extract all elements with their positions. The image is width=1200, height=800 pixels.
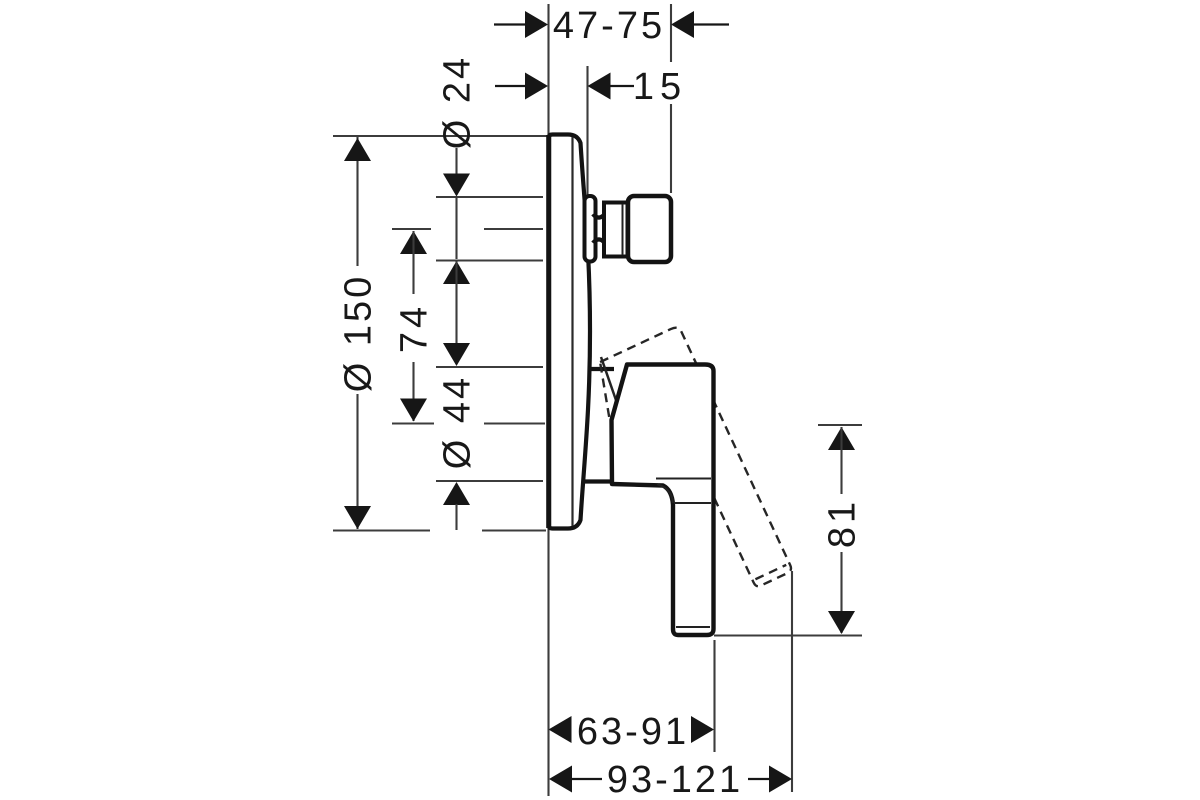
- dim O44 up arrow: [443, 482, 470, 505]
- extension line x=792 (93-121 right): [791, 571, 793, 792]
- dim 74 up arrow: [400, 231, 427, 254]
- dim 81 line lower: [840, 552, 842, 633]
- dim O44 down arrow: [443, 343, 470, 366]
- extension line y=367 (sleeve top, O44): [436, 366, 543, 368]
- dim 93-121 left tail: [572, 778, 602, 780]
- svg-text:Ø 44: Ø 44: [437, 375, 479, 469]
- extension line x=671 (below 15 text, down to knob): [670, 104, 672, 193]
- extension line y=481 (sleeve bottom, O44): [436, 480, 543, 482]
- extension line x=548 (plate front face, full height): [547, 4, 549, 796]
- extension line y=530.5 right segment: [482, 529, 546, 531]
- dim O24 down arrow: [443, 174, 470, 197]
- dim O44 line above: [455, 292, 457, 344]
- dim O150 line upper: [356, 137, 358, 266]
- dim 63-91 left arrow: [549, 716, 572, 743]
- svg-text:47-75: 47-75: [553, 5, 665, 47]
- extension line y=229 (knob centerline, left segment): [392, 228, 431, 230]
- svg-text:Ø 150: Ø 150: [338, 274, 380, 393]
- handle sleeve top edge: [588, 367, 615, 371]
- knob neck lower edge: [593, 239, 607, 245]
- dim 47-75 line left tail: [494, 23, 526, 25]
- dim O24 up arrow: [443, 261, 470, 284]
- extension line x=671 (knob end, upper part): [670, 4, 672, 62]
- dim O44 tail below: [455, 504, 457, 530]
- svg-text:93-121: 93-121: [607, 759, 743, 800]
- extension line y=635.5 (grip bottom, 81 bottom): [714, 634, 862, 636]
- dim O150 line lower: [356, 394, 358, 529]
- dim O24 line middle: [455, 198, 457, 259]
- svg-text:15: 15: [633, 66, 687, 108]
- extension line y=229 (knob centerline, right segment): [484, 228, 543, 230]
- dim 81 line upper: [840, 427, 842, 494]
- handle fillet second curve: [657, 484, 673, 503]
- knob cap: [628, 196, 671, 262]
- dim 15 right arrow: [588, 73, 611, 100]
- knob cylinder inner line: [622, 204, 624, 255]
- extension line x=716 (63-91 right): [713, 640, 715, 752]
- dim 93-121 right tail: [748, 778, 769, 780]
- svg-text:74: 74: [394, 303, 436, 353]
- escutcheon plate outline: [549, 135, 590, 529]
- knob neck upper edge: [593, 212, 607, 218]
- svg-text:Ø 24: Ø 24: [437, 55, 479, 149]
- plate face inner line: [571, 137, 573, 526]
- dim 47-75 right tail: [694, 23, 729, 25]
- handle sleeve bottom edge: [585, 479, 612, 483]
- dim 47-75 left arrow: [525, 11, 548, 38]
- plate front face edge (left, thicker): [546, 135, 551, 528]
- extension line y=197 (knob top): [436, 196, 543, 198]
- extension line x=587 (knob base): [586, 66, 588, 195]
- dim 74 down arrow: [400, 399, 427, 422]
- extension line y=423.5 (handle pivot centerline, right segment): [484, 422, 545, 424]
- extension line y=423.5 (handle pivot centerline, left segment): [392, 422, 434, 424]
- handle step lower line: [674, 502, 711, 504]
- dim O150 up arrow: [344, 138, 371, 161]
- svg-text:81: 81: [822, 498, 864, 548]
- dim O24 tail below: [455, 261, 457, 292]
- dim 81 up arrow: [828, 427, 855, 450]
- dashed handle (swung position): [586, 325, 793, 613]
- dim 74 line upper: [412, 231, 414, 294]
- dim 15 right tail: [610, 85, 634, 87]
- dim 93-121 left arrow: [549, 766, 572, 793]
- dim 81 down arrow: [828, 611, 855, 634]
- handle neck slant edge: [601, 357, 617, 403]
- dim 15 left tail: [495, 85, 526, 87]
- dim 47-75 right arrow: [671, 11, 694, 38]
- extension line y=136 (O150 top): [333, 135, 548, 137]
- dim O150 down arrow: [344, 506, 371, 529]
- dim 74 line lower: [412, 362, 414, 421]
- dim 93-121 right arrow: [769, 766, 792, 793]
- svg-text:63-91: 63-91: [577, 711, 689, 753]
- dim O24 line above: [455, 148, 457, 195]
- handle step upper line: [656, 478, 711, 480]
- extension line y=425 (81 top): [818, 424, 862, 426]
- handle grip end inner line: [676, 626, 710, 628]
- dim 63-91 right arrow: [691, 716, 714, 743]
- knob flange: [585, 196, 596, 262]
- solid handle outline: [612, 365, 714, 636]
- extension line y=530.5 (O150 bottom): [333, 529, 430, 531]
- extension line y=260.5 (knob bottom): [436, 259, 543, 261]
- knob cylinder: [604, 203, 628, 257]
- dim 15 left arrow: [525, 73, 548, 100]
